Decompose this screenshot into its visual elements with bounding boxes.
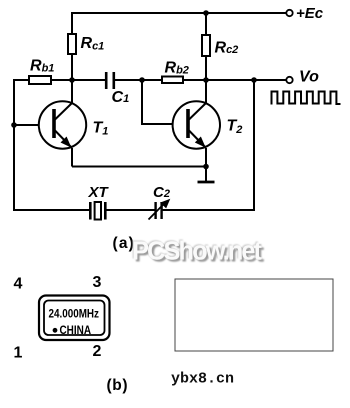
wire left rail (T1 base / feedback) xyxy=(13,79,15,211)
svg-text:CHINA: CHINA xyxy=(60,323,92,337)
crystal package outline (b) xyxy=(39,296,110,341)
svg-text:(b): (b) xyxy=(107,377,129,394)
svg-text:+Ec: +Ec xyxy=(296,5,324,22)
wire T1 base lead xyxy=(14,124,39,126)
wire C1 to T2 base node xyxy=(115,79,142,81)
wire emitter rail xyxy=(72,166,206,168)
transistor T1 xyxy=(39,101,86,148)
square wave symbol at Vo xyxy=(272,92,341,105)
junction: Vo feedback tap xyxy=(251,77,257,83)
wire T1 emitter drop xyxy=(71,148,73,167)
resistor Rc1 xyxy=(68,12,76,103)
wire bottom loop left xyxy=(13,209,89,211)
junction: Rc2 top rail xyxy=(203,10,209,16)
crystal package inner outline xyxy=(44,301,105,336)
svg-text:24.000MHz: 24.000MHz xyxy=(49,307,100,321)
svg-text:3: 3 xyxy=(93,274,102,291)
resistor Rb1 xyxy=(29,76,72,84)
wire row2 left segment xyxy=(14,79,29,81)
svg-text:4: 4 xyxy=(14,276,23,293)
wire T2 collector node to Vo terminal xyxy=(206,79,287,81)
svg-text:1: 1 xyxy=(14,345,23,362)
junction: emitter/ground node xyxy=(203,164,209,170)
capacitor C2 (trimmer) xyxy=(149,200,170,220)
capacitor C1 xyxy=(106,72,114,89)
wire C2 to right rail xyxy=(163,209,256,211)
wire T1 collector node to C1 xyxy=(72,79,105,81)
wire top +Ec rail xyxy=(72,12,287,14)
terminal Vo xyxy=(286,77,292,83)
svg-text:PCShow.net: PCShow.net xyxy=(132,238,263,266)
svg-text:ybx8.cn: ybx8.cn xyxy=(171,371,234,388)
wire T2 emitter drop xyxy=(205,148,207,167)
ground xyxy=(198,167,215,183)
svg-text:Vo: Vo xyxy=(299,69,319,86)
junction: T1 base node xyxy=(11,122,17,128)
resistor Rb2 xyxy=(142,77,206,84)
terminal +Ec xyxy=(286,10,292,16)
junction: T2 base node xyxy=(139,77,145,83)
resistor Rc2 xyxy=(202,12,210,103)
junction: T1 collector node xyxy=(69,77,75,83)
wire T2 base drop xyxy=(142,80,172,124)
svg-text:2: 2 xyxy=(93,343,102,360)
svg-text:XT: XT xyxy=(88,184,110,201)
placeholder rectangle xyxy=(175,279,333,351)
watermark PCShow.net xyxy=(131,237,265,268)
brand dot xyxy=(53,328,58,333)
wire XT to C2 xyxy=(107,209,155,211)
transistor T2 xyxy=(173,101,220,148)
wire right rail (feedback from Vo) xyxy=(253,80,255,211)
crystal XT xyxy=(90,202,105,220)
junction: T2 collector node xyxy=(203,77,209,83)
